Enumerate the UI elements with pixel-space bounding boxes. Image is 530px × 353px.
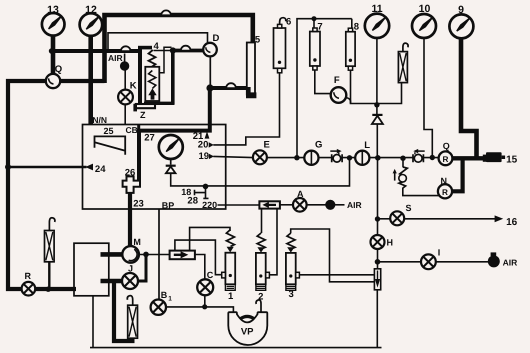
svg-text:6: 6 xyxy=(286,17,291,28)
svg-text:Q: Q xyxy=(443,141,450,151)
svg-text:24: 24 xyxy=(95,164,106,175)
wire: restrictor to bottom line xyxy=(376,290,378,348)
actuator 6 xyxy=(274,18,286,73)
wire: K to box top xyxy=(124,104,126,125)
svg-text:G: G xyxy=(315,140,322,151)
svg-text:23: 23 xyxy=(133,199,144,210)
wire: gauge 9 thick line down to plug 15 xyxy=(461,36,477,158)
wire: B1 row to VP hose xyxy=(166,307,234,313)
svg-text:12: 12 xyxy=(85,4,97,16)
svg-text:R: R xyxy=(442,188,448,197)
valve D xyxy=(203,43,217,57)
svg-text:19: 19 xyxy=(199,151,210,162)
wire: thick row into plug 15 xyxy=(452,156,485,160)
svg-text:S: S xyxy=(405,203,411,213)
wire: gauge 11 stem xyxy=(376,38,378,115)
reservoir 5 xyxy=(247,43,255,95)
svg-text:13: 13 xyxy=(47,4,59,16)
svg-text:AIR: AIR xyxy=(108,53,123,63)
filter left xyxy=(45,218,55,262)
gauge 13 xyxy=(42,13,65,36)
AIR port right xyxy=(488,252,500,267)
svg-text:4: 4 xyxy=(154,41,160,52)
svg-text:27: 27 xyxy=(144,133,155,144)
wire: thick air line y=51 xyxy=(51,49,141,53)
wire: comp7 top drop xyxy=(313,19,315,29)
Z bar tab xyxy=(133,104,137,112)
wire: 220 line out of box to arrow box A row xyxy=(218,204,260,206)
svg-text:26: 26 xyxy=(125,168,136,179)
wire: Q row and far-left main run down to R row xyxy=(8,81,105,289)
wire: filter 1 drop to R row xyxy=(48,262,50,290)
wire: valve 4 box right side link xyxy=(159,47,171,72)
svg-text:R: R xyxy=(443,155,449,164)
valve 4 top tee xyxy=(138,46,152,50)
svg-text:1: 1 xyxy=(168,295,172,302)
wire: F right side run to filter 3 drop xyxy=(346,83,402,104)
wire: thick D junction left segment xyxy=(171,49,205,53)
arrow box near M xyxy=(170,251,195,260)
wire: comp3 tab line to restrictor xyxy=(300,274,375,276)
wire: comp3 spring bypass to restrictor lower line xyxy=(291,229,375,282)
svg-text:C: C xyxy=(207,270,214,280)
valve F xyxy=(331,87,347,103)
flow valve after G xyxy=(330,149,342,162)
arrowhead 24 xyxy=(85,164,93,171)
arrow 21 up xyxy=(205,131,210,138)
cylinder 1 xyxy=(222,230,236,290)
flow valve before Q/R xyxy=(413,149,425,162)
filter top right xyxy=(398,43,408,82)
wire: diode to main row xyxy=(376,124,378,158)
hop bump air line xyxy=(121,46,131,51)
wire: comp8 top drop xyxy=(351,19,353,29)
fitting 26 xyxy=(123,176,140,193)
wire: A circle to AIR dot xyxy=(307,204,327,206)
wire: C bottom to B1 row xyxy=(204,295,206,307)
wire: thick 23 line from fitting 26 to M valve xyxy=(128,193,132,248)
wire: comp7 bottom to F xyxy=(315,66,331,94)
gauge 9 xyxy=(449,14,473,38)
svg-text:5: 5 xyxy=(255,35,261,46)
wire: S row with 16 line xyxy=(378,218,391,220)
wire: J branch down to filter run xyxy=(114,283,135,341)
reservoir 5 foot xyxy=(246,87,256,98)
test point S xyxy=(390,211,404,225)
svg-text:A: A xyxy=(297,189,304,199)
valve L xyxy=(355,151,369,165)
wire: main vertical x=377.5 row to S junction to H xyxy=(377,158,379,236)
valve 4 spring xyxy=(149,50,156,67)
svg-text:Q: Q xyxy=(55,64,62,75)
svg-text:AIR: AIR xyxy=(503,258,518,268)
arrow box on A row xyxy=(259,201,280,208)
cylinder 3 xyxy=(286,233,300,290)
test point R xyxy=(22,282,36,296)
gauge 11 xyxy=(365,14,389,38)
wire: I row right to AIR xyxy=(436,261,489,263)
test point H xyxy=(371,235,385,249)
wire: thick top line from left corner to component 5 xyxy=(105,15,253,83)
svg-text:E: E xyxy=(264,140,270,151)
svg-text:20: 20 xyxy=(198,140,209,151)
svg-text:11: 11 xyxy=(371,3,382,15)
svg-text:B: B xyxy=(161,290,168,300)
ramp symbol 25 xyxy=(95,136,126,154)
svg-text:220: 220 xyxy=(202,200,217,210)
test point K xyxy=(118,90,133,105)
hop bump comp5 line xyxy=(226,83,236,88)
wire: S to 16 arrow xyxy=(404,218,496,220)
svg-text:1: 1 xyxy=(228,291,234,302)
N/N control box xyxy=(83,125,226,210)
svg-text:28: 28 xyxy=(187,196,198,207)
wire: AIR port to K xyxy=(124,70,126,90)
valve Q xyxy=(46,74,60,88)
wire: comp6 drop and 20 line xyxy=(213,73,279,145)
valve 4 inner arrow xyxy=(148,88,156,99)
wire: valve 4 drop at x=140 xyxy=(138,47,142,105)
svg-text:7: 7 xyxy=(317,22,322,33)
svg-text:2: 2 xyxy=(258,292,263,303)
wire: CB nub xyxy=(137,125,140,131)
wire: valve 4 bottom bar xyxy=(144,102,174,105)
svg-text:D: D xyxy=(212,33,219,44)
svg-text:3: 3 xyxy=(289,289,294,300)
wire: thick main from comp5 through D junction into box (CB) down to fitting 26 xyxy=(139,88,248,185)
wire: AIR port neck xyxy=(124,54,126,63)
valve 4 inner spring xyxy=(149,71,156,89)
wire: J stub into box xyxy=(101,279,125,284)
wire: regulator 17 drop from row xyxy=(402,159,404,168)
gauge 10 xyxy=(412,14,436,38)
wire: A row from arrow box to A circle xyxy=(280,204,294,206)
AIR port mid xyxy=(325,200,335,210)
svg-text:CB: CB xyxy=(126,125,138,135)
svg-text:J: J xyxy=(128,263,133,273)
svg-text:I: I xyxy=(438,248,441,258)
wire: box 3 bottom drop and long bottom line xyxy=(90,296,382,348)
wire: thin loop from air junction over to D top xyxy=(108,33,208,50)
wire: H to restrictor xyxy=(377,249,379,270)
svg-text:9: 9 xyxy=(458,4,464,16)
cylinder 2 xyxy=(256,233,270,290)
wire: BP line from box bottom to B1 xyxy=(158,209,160,300)
wire: AIR dot to AIR text xyxy=(335,204,345,206)
filter bottom xyxy=(127,296,137,339)
hop bump top line xyxy=(161,10,171,15)
wire: D circle lower stem thin xyxy=(209,55,211,87)
svg-text:M: M xyxy=(133,237,141,247)
svg-text:K: K xyxy=(130,81,137,92)
arrowhead 19 xyxy=(209,154,214,159)
test point B1 xyxy=(151,300,166,315)
svg-text:N/N: N/N xyxy=(92,115,107,125)
wire: N/R thick link up to plug row xyxy=(452,157,463,192)
actuator 7 xyxy=(310,28,320,70)
test point E xyxy=(253,150,267,164)
wire: thick drop right of valve 4 xyxy=(171,51,175,105)
check valve on gauge 11 line xyxy=(372,115,383,124)
svg-text:L: L xyxy=(364,140,370,151)
svg-text:BP: BP xyxy=(162,201,175,211)
wire: gauge 13 stem xyxy=(51,33,56,76)
gauge 12 xyxy=(80,13,103,36)
wire: I row left xyxy=(378,261,422,263)
valve M xyxy=(122,246,139,263)
wire: regulator 17 bottom to N/R xyxy=(403,188,439,196)
svg-text:15: 15 xyxy=(506,154,518,165)
test point A xyxy=(293,198,307,212)
svg-text:10: 10 xyxy=(419,3,431,15)
wire: gauge 27 drop long line right and rise to row xyxy=(171,158,350,186)
wire: gauge 12 stem down to N/N box xyxy=(88,33,93,125)
gauge 27 xyxy=(159,135,183,159)
wire: thin segment spring top to thick D junction xyxy=(154,50,173,52)
wire: arrow box M bypass to comp1 tab xyxy=(175,240,222,275)
wire: gauge 27 stem xyxy=(170,159,172,165)
wire: M junction row through arrow box to C xyxy=(139,255,205,281)
arrowhead 20 xyxy=(209,142,214,147)
svg-text:Z: Z xyxy=(140,110,146,120)
wire: top manifold of comps 7 and 8 with drop to E junction xyxy=(297,19,352,158)
svg-text:R: R xyxy=(24,271,31,281)
svg-text:8: 8 xyxy=(354,22,359,33)
wire: 19 line and main row to Q/R xyxy=(213,156,438,157)
pressure regulator 17 xyxy=(393,167,408,188)
wire: gauge 10 stem with jog to row xyxy=(424,38,432,156)
svg-text:N: N xyxy=(440,176,447,186)
wire: arrow box A right drop to comp2 tab xyxy=(270,209,277,275)
restrictor below H xyxy=(374,269,380,290)
booster box xyxy=(74,243,109,296)
regulator Q/R xyxy=(439,151,453,165)
hop bump D line xyxy=(181,46,191,51)
wire: J right link to M junction xyxy=(137,254,146,282)
check valve under gauge 27 xyxy=(166,166,176,174)
svg-text:H: H xyxy=(387,238,394,248)
test point J xyxy=(122,273,138,289)
svg-text:25: 25 xyxy=(103,126,113,136)
wire: 18 tee below junction xyxy=(195,187,209,199)
wire: comp1 spring line to arrow box M xyxy=(190,227,230,250)
wire: M stub into box xyxy=(101,252,125,257)
svg-text:16: 16 xyxy=(506,217,518,228)
plug 15 xyxy=(483,152,505,162)
actuator 8 xyxy=(346,28,355,70)
Z bar xyxy=(136,104,155,108)
svg-text:AIR: AIR xyxy=(347,200,362,210)
wire: 24 line xyxy=(8,166,87,169)
valve G xyxy=(304,151,318,165)
valve 4 body xyxy=(145,67,159,101)
regulator N/R xyxy=(438,184,452,198)
wire: comp8 bottom drop xyxy=(350,66,352,104)
AIR port top left xyxy=(120,61,129,70)
svg-text:F: F xyxy=(334,75,340,86)
svg-text:VP: VP xyxy=(241,326,254,337)
test point I xyxy=(421,254,436,269)
wire: arrow box A left drop to comp2 spring xyxy=(261,209,263,233)
test point C xyxy=(197,279,213,295)
vacuum pump VP xyxy=(228,300,267,345)
arrow to 16 xyxy=(495,215,504,222)
